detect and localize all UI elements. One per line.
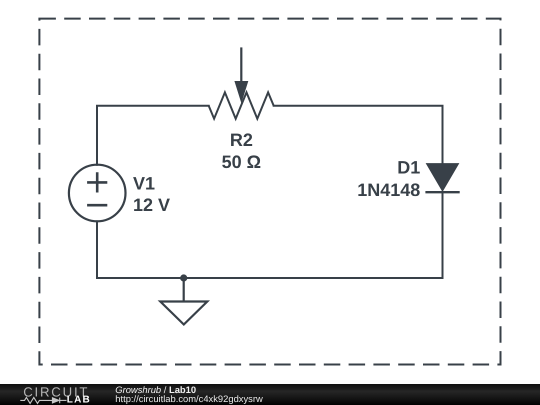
CircuitLab logo circuit glyph (resistor + diode) [20, 397, 66, 403]
diode D1 [425, 164, 459, 193]
svg-text:http://circuitlab.com/c4xk92gd: http://circuitlab.com/c4xk92gdxysrw [115, 393, 263, 404]
voltage source V1 [69, 165, 126, 222]
svg-text:1N4148: 1N4148 [357, 180, 420, 200]
wire: top-left segment (V1 top to R2 left lead) [97, 106, 209, 165]
node junction dot [180, 274, 187, 281]
ground [160, 278, 207, 325]
svg-text:LAB: LAB [67, 395, 91, 405]
resistor R2 (rheostat) [209, 47, 274, 118]
wire: top-right segment (R2 right lead to diode top) [274, 106, 443, 165]
schematic dashed boundary [39, 19, 500, 365]
svg-text:50 Ω: 50 Ω [222, 152, 261, 172]
svg-text:D1: D1 [397, 158, 420, 178]
svg-text:12 V: 12 V [133, 195, 170, 215]
footer bar [0, 384, 540, 405]
svg-text:V1: V1 [133, 174, 155, 194]
svg-text:R2: R2 [230, 130, 253, 150]
wire: bottom segment (V1 bottom to diode bottom) [97, 192, 443, 278]
